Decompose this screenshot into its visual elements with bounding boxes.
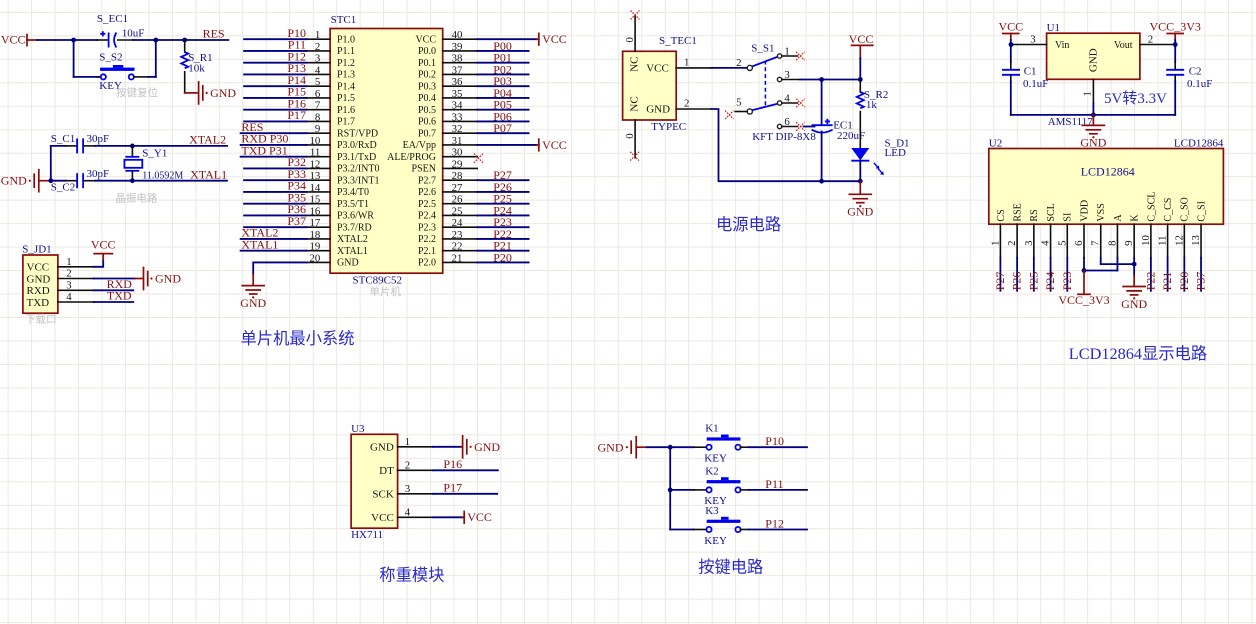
svg-text:LED: LED <box>885 147 906 159</box>
svg-text:GND: GND <box>155 272 181 286</box>
svg-text:P0.5: P0.5 <box>418 105 436 116</box>
svg-text:1: 1 <box>684 56 689 68</box>
svg-text:C1: C1 <box>1024 65 1037 77</box>
svg-text:VCC: VCC <box>467 510 492 524</box>
svg-text:P2.4: P2.4 <box>418 211 436 222</box>
svg-text:TXD: TXD <box>27 297 50 309</box>
svg-text:NC: NC <box>629 57 641 72</box>
svg-text:13: 13 <box>1190 235 1202 246</box>
svg-text:18: 18 <box>310 229 321 241</box>
svg-text:P12: P12 <box>765 516 784 530</box>
svg-text:P3.5/T1: P3.5/T1 <box>337 199 369 210</box>
svg-text:0: 0 <box>624 133 636 138</box>
svg-text:23: 23 <box>452 229 463 241</box>
svg-text:P25: P25 <box>1026 272 1040 291</box>
svg-text:LCD12864: LCD12864 <box>1174 138 1224 150</box>
svg-text:12: 12 <box>310 158 321 170</box>
svg-text:2: 2 <box>405 459 410 471</box>
svg-text:P1.0: P1.0 <box>337 34 355 45</box>
svg-text:34: 34 <box>452 100 463 112</box>
svg-text:Vout: Vout <box>1114 40 1133 51</box>
svg-text:XTAL1: XTAL1 <box>337 246 368 257</box>
svg-text:P3.7/RD: P3.7/RD <box>337 222 372 233</box>
svg-text:P1.1: P1.1 <box>337 46 355 57</box>
svg-text:P1.5: P1.5 <box>337 93 355 104</box>
svg-text:VCC: VCC <box>371 512 394 524</box>
svg-text:24: 24 <box>452 217 463 229</box>
svg-text:0.1uF: 0.1uF <box>1023 78 1048 90</box>
svg-text:称重模块: 称重模块 <box>379 566 444 585</box>
svg-text:P37: P37 <box>1194 272 1208 291</box>
svg-text:P3.2/INT0: P3.2/INT0 <box>337 164 380 175</box>
svg-text:按键电路: 按键电路 <box>698 558 763 577</box>
svg-text:KEY: KEY <box>704 453 727 465</box>
svg-text:5V转3.3V: 5V转3.3V <box>1104 90 1167 107</box>
svg-text:VCC: VCC <box>1 33 26 47</box>
svg-text:S_EC1: S_EC1 <box>97 13 128 25</box>
svg-text:38: 38 <box>452 53 463 65</box>
svg-text:GND: GND <box>1088 48 1100 72</box>
svg-text:16: 16 <box>310 205 321 217</box>
svg-text:1: 1 <box>66 256 71 268</box>
svg-text:C_CS: C_CS <box>1163 198 1174 222</box>
svg-text:GND: GND <box>474 440 500 454</box>
svg-text:XTAL2: XTAL2 <box>189 132 226 146</box>
svg-text:7: 7 <box>315 100 321 112</box>
svg-text:GND: GND <box>240 296 266 310</box>
svg-text:0.1uF: 0.1uF <box>1187 78 1212 90</box>
svg-text:GND: GND <box>847 205 873 219</box>
svg-text:P3.4/T0: P3.4/T0 <box>337 187 369 198</box>
svg-text:VCC: VCC <box>415 34 436 45</box>
svg-text:P22: P22 <box>1143 272 1157 291</box>
svg-text:P1.3: P1.3 <box>337 70 355 81</box>
svg-text:P20: P20 <box>1177 272 1191 291</box>
svg-text:22: 22 <box>452 241 463 253</box>
svg-text:5: 5 <box>736 96 741 108</box>
svg-text:25: 25 <box>452 205 463 217</box>
svg-text:10k: 10k <box>188 62 205 74</box>
svg-text:RXD: RXD <box>27 285 50 297</box>
svg-text:P0.6: P0.6 <box>418 117 436 128</box>
svg-text:C_SI: C_SI <box>1196 201 1207 222</box>
svg-text:SCK: SCK <box>372 489 393 501</box>
svg-text:4: 4 <box>405 506 411 518</box>
svg-text:C2: C2 <box>1189 65 1202 77</box>
svg-text:电源电路: 电源电路 <box>716 215 781 234</box>
svg-text:按键复位: 按键复位 <box>116 86 158 99</box>
svg-text:LCD12864显示电路: LCD12864显示电路 <box>1069 344 1207 363</box>
svg-text:37: 37 <box>452 64 463 76</box>
svg-text:P2.6: P2.6 <box>418 187 436 198</box>
svg-text:P24: P24 <box>1043 272 1057 291</box>
svg-text:P2.1: P2.1 <box>418 246 436 257</box>
svg-text:39: 39 <box>452 41 463 53</box>
svg-text:15: 15 <box>310 194 321 206</box>
svg-text:6: 6 <box>315 88 321 100</box>
svg-text:STC1: STC1 <box>331 14 357 26</box>
svg-text:0: 0 <box>624 37 636 42</box>
svg-text:XTAL1: XTAL1 <box>241 237 278 251</box>
svg-text:P0.1: P0.1 <box>418 58 436 69</box>
svg-text:P1.4: P1.4 <box>337 81 355 92</box>
svg-text:P20: P20 <box>493 250 512 264</box>
svg-text:29: 29 <box>452 158 463 170</box>
svg-text:32: 32 <box>452 123 463 135</box>
svg-text:P11: P11 <box>765 477 783 491</box>
svg-text:P3.0/RxD: P3.0/RxD <box>337 140 377 151</box>
svg-text:33: 33 <box>452 111 463 123</box>
svg-text:8: 8 <box>1106 240 1118 245</box>
svg-text:GND: GND <box>27 273 51 285</box>
svg-text:A: A <box>1113 214 1124 222</box>
svg-text:VSS: VSS <box>1096 203 1107 221</box>
svg-text:40: 40 <box>452 29 463 41</box>
svg-text:GND: GND <box>646 104 670 116</box>
svg-text:VCC: VCC <box>542 138 567 152</box>
svg-text:S_JD1: S_JD1 <box>22 244 51 256</box>
svg-text:P2.5: P2.5 <box>418 199 436 210</box>
svg-text:NC: NC <box>629 96 641 111</box>
svg-text:14: 14 <box>310 182 321 194</box>
svg-text:P23: P23 <box>1060 272 1074 291</box>
svg-text:27: 27 <box>452 182 463 194</box>
svg-text:11: 11 <box>310 147 320 159</box>
svg-text:U3: U3 <box>351 423 365 435</box>
svg-text:30: 30 <box>452 147 463 159</box>
svg-text:1k: 1k <box>866 99 878 111</box>
svg-text:30pF: 30pF <box>87 168 110 180</box>
svg-text:1: 1 <box>405 436 410 448</box>
svg-text:26: 26 <box>452 194 463 206</box>
svg-text:S_Y1: S_Y1 <box>142 148 167 160</box>
svg-text:30pF: 30pF <box>87 133 110 145</box>
svg-text:9: 9 <box>315 123 320 135</box>
svg-text:3: 3 <box>1023 240 1035 245</box>
svg-text:P0.3: P0.3 <box>418 81 436 92</box>
svg-text:2: 2 <box>1006 240 1018 245</box>
svg-text:1: 1 <box>1082 91 1094 96</box>
svg-text:10uF: 10uF <box>122 27 145 39</box>
svg-text:4: 4 <box>315 64 321 76</box>
svg-text:3: 3 <box>405 483 410 495</box>
svg-text:P2.0: P2.0 <box>418 258 436 269</box>
svg-text:VCC_3V3: VCC_3V3 <box>1058 293 1109 307</box>
svg-text:VCC: VCC <box>542 32 567 46</box>
svg-text:C_SO: C_SO <box>1180 197 1191 221</box>
svg-text:LCD12864: LCD12864 <box>1081 165 1135 179</box>
svg-text:28: 28 <box>452 170 463 182</box>
svg-text:RS: RS <box>1029 209 1040 221</box>
svg-text:36: 36 <box>452 76 463 88</box>
svg-text:P07: P07 <box>493 121 512 135</box>
svg-text:P16: P16 <box>443 457 462 471</box>
svg-text:2: 2 <box>66 268 71 280</box>
svg-text:5: 5 <box>1056 240 1068 245</box>
svg-text:SCL: SCL <box>1046 203 1057 221</box>
svg-text:TYPEC: TYPEC <box>651 121 686 133</box>
svg-text:GND: GND <box>1121 297 1147 311</box>
svg-text:3: 3 <box>66 279 71 291</box>
svg-text:P1.6: P1.6 <box>337 105 355 116</box>
svg-text:VDD: VDD <box>1079 200 1090 222</box>
svg-text:S_S1: S_S1 <box>751 43 774 55</box>
svg-text:HX711: HX711 <box>351 529 383 541</box>
svg-text:VCC: VCC <box>91 238 116 252</box>
svg-text:VCC_3V3: VCC_3V3 <box>1150 19 1201 33</box>
svg-text:STC89C52: STC89C52 <box>353 274 403 286</box>
svg-text:3: 3 <box>315 53 320 65</box>
svg-text:AMS1117: AMS1117 <box>1048 116 1094 128</box>
svg-text:P26: P26 <box>1010 272 1024 291</box>
svg-text:CS: CS <box>996 209 1007 221</box>
svg-text:11: 11 <box>1157 235 1169 245</box>
svg-text:2: 2 <box>736 57 741 69</box>
svg-text:GND: GND <box>370 442 394 454</box>
svg-text:VCC: VCC <box>998 19 1023 33</box>
svg-text:P1.7: P1.7 <box>337 117 355 128</box>
svg-text:下载口: 下载口 <box>25 314 57 326</box>
svg-text:K1: K1 <box>705 423 718 435</box>
svg-text:KEY: KEY <box>704 535 727 547</box>
svg-text:9: 9 <box>1123 240 1135 245</box>
svg-text:10: 10 <box>310 135 321 147</box>
svg-text:P2.7: P2.7 <box>418 175 436 186</box>
svg-text:P21: P21 <box>1160 272 1174 291</box>
svg-text:EA/Vpp: EA/Vpp <box>403 140 436 151</box>
svg-text:TXD: TXD <box>107 289 132 303</box>
svg-text:RES: RES <box>203 26 225 40</box>
svg-text:单片机: 单片机 <box>370 285 402 298</box>
svg-text:GND: GND <box>598 440 624 454</box>
svg-text:20: 20 <box>310 252 321 264</box>
svg-text:VCC: VCC <box>646 62 669 74</box>
svg-text:2: 2 <box>684 97 689 109</box>
svg-text:XTAL2: XTAL2 <box>337 234 368 245</box>
svg-text:U2: U2 <box>989 138 1002 150</box>
svg-text:SI: SI <box>1063 213 1074 222</box>
svg-text:1: 1 <box>989 240 1001 245</box>
svg-text:PSEN: PSEN <box>412 164 436 175</box>
svg-text:P27: P27 <box>993 272 1007 291</box>
svg-text:Vin: Vin <box>1055 40 1069 51</box>
svg-text:RST/VPD: RST/VPD <box>337 128 378 139</box>
svg-text:P0.2: P0.2 <box>418 70 436 81</box>
svg-text:GND: GND <box>1 174 27 188</box>
svg-text:P0.0: P0.0 <box>418 46 436 57</box>
svg-text:S_TEC1: S_TEC1 <box>659 35 697 47</box>
svg-text:P17: P17 <box>287 108 306 122</box>
svg-text:P2.3: P2.3 <box>418 222 436 233</box>
svg-text:晶振电路: 晶振电路 <box>115 192 157 205</box>
svg-text:GND: GND <box>1080 136 1106 150</box>
svg-text:C_SCL: C_SCL <box>1146 192 1157 222</box>
svg-text:VCC: VCC <box>849 32 874 46</box>
svg-text:P0.7: P0.7 <box>418 128 436 139</box>
svg-text:21: 21 <box>452 252 463 264</box>
svg-text:P10: P10 <box>765 434 784 448</box>
svg-text:VCC: VCC <box>27 262 50 274</box>
svg-text:8: 8 <box>315 111 320 123</box>
svg-text:13: 13 <box>310 170 321 182</box>
svg-text:P3.3/INT1: P3.3/INT1 <box>337 175 380 186</box>
svg-text:4: 4 <box>1040 240 1052 246</box>
svg-text:单片机最小系统: 单片机最小系统 <box>241 329 355 348</box>
svg-text:GND: GND <box>210 86 236 100</box>
svg-text:S_S2: S_S2 <box>99 51 122 63</box>
svg-text:2: 2 <box>315 41 320 53</box>
svg-text:5: 5 <box>315 76 320 88</box>
svg-text:K: K <box>1130 214 1141 222</box>
svg-text:U1: U1 <box>1047 22 1060 34</box>
svg-text:19: 19 <box>310 241 321 253</box>
svg-text:RSE: RSE <box>1013 203 1024 221</box>
svg-text:P17: P17 <box>443 480 462 494</box>
svg-text:P3.6/WR: P3.6/WR <box>337 211 374 222</box>
svg-text:1: 1 <box>315 29 320 41</box>
svg-text:2: 2 <box>1148 33 1153 45</box>
svg-text:P0.4: P0.4 <box>418 93 436 104</box>
svg-text:TXD P31: TXD P31 <box>241 143 287 157</box>
svg-text:K3: K3 <box>705 505 719 517</box>
svg-text:P3.1/TxD: P3.1/TxD <box>337 152 376 163</box>
svg-text:KFT DIP-8X8: KFT DIP-8X8 <box>752 131 816 143</box>
svg-text:12: 12 <box>1173 235 1185 246</box>
svg-text:ALE/PROG: ALE/PROG <box>387 152 436 163</box>
svg-text:35: 35 <box>452 88 463 100</box>
svg-text:S_C1: S_C1 <box>51 133 75 145</box>
svg-text:DT: DT <box>379 465 394 477</box>
svg-text:GND: GND <box>337 258 359 269</box>
svg-text:3: 3 <box>1030 33 1035 45</box>
svg-text:31: 31 <box>452 135 463 147</box>
svg-text:XTAL1: XTAL1 <box>190 167 227 181</box>
svg-text:P2.2: P2.2 <box>418 234 436 245</box>
svg-text:4: 4 <box>66 291 72 303</box>
svg-text:10: 10 <box>1140 235 1152 246</box>
svg-text:P37: P37 <box>287 214 306 228</box>
svg-text:7: 7 <box>1090 240 1102 246</box>
svg-text:K2: K2 <box>705 465 718 477</box>
svg-text:S_C2: S_C2 <box>51 182 75 194</box>
svg-text:17: 17 <box>310 217 321 229</box>
svg-text:6: 6 <box>1073 240 1085 246</box>
svg-text:P1.2: P1.2 <box>337 58 355 69</box>
